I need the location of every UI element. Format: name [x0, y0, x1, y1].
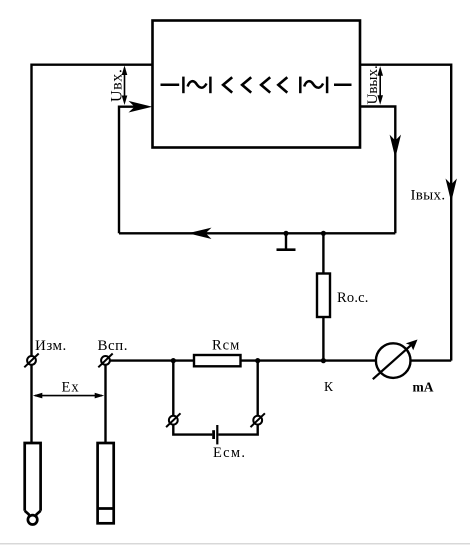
resistor Ro.c.: [317, 274, 330, 318]
auxiliary electrode (Всп): [98, 443, 114, 523]
demodulator symbol (output) inside block: [300, 77, 351, 94]
ground: [277, 233, 296, 249]
svg-text:К: К: [324, 379, 334, 394]
arrowhead into block input: [129, 101, 153, 113]
glass electrode (Изм): [25, 443, 41, 525]
dimension arrow Ex between electrode wires: [33, 393, 104, 399]
amplifier block U1 (modulator-amplifier-demodulator): [153, 21, 361, 148]
svg-text:Eсм.: Eсм.: [213, 445, 246, 461]
svg-text:Rо.с.: Rо.с.: [337, 290, 369, 306]
amplifier stage chevrons inside block: [223, 77, 287, 92]
wire: top input from left column to block: [32, 65, 153, 356]
svg-text:Rсм: Rсм: [212, 338, 240, 354]
junction dot left battery branch: [171, 358, 176, 363]
dimension arrow for Uвых: [377, 66, 383, 104]
wire: feedback rail: [119, 232, 395, 234]
resistor Rсм: [194, 355, 241, 366]
junction dot at ground stem: [283, 231, 288, 236]
modulator symbol (input) inside block: [161, 77, 211, 94]
terminal Всп. (circle with slash): [98, 354, 112, 368]
page separator line: [0, 543, 470, 545]
svg-text:mA: mA: [413, 380, 434, 395]
wire: lower output of block down to feedback rail: [360, 107, 395, 234]
svg-text:Изм.: Изм.: [35, 338, 67, 354]
arrowhead of meter needle: [406, 340, 418, 351]
svg-text:Iвых.: Iвых.: [411, 188, 446, 204]
terminal Изм. (circle with slash): [24, 354, 38, 368]
junction dot at Ro.c. branch: [321, 231, 326, 236]
dimension arrow for Uвх: [122, 66, 128, 106]
terminal (circle with slash) right of Eсм: [251, 413, 265, 427]
battery Eсм plates: [214, 425, 218, 444]
node K junction dot: [321, 358, 326, 363]
wire: resistor Ro.c. to node K: [322, 317, 324, 361]
wire: top output from block to right column: [360, 65, 451, 361]
arrowhead down on lower output wire: [390, 135, 401, 158]
wire: Всп terminal down to auxiliary electrode: [104, 365, 106, 443]
terminal (circle with slash) left of Eсм: [166, 413, 180, 427]
wire: Изм terminal down to glass electrode: [30, 365, 32, 443]
wire: left terminal to battery: [173, 425, 212, 435]
junction dot right battery branch: [255, 358, 260, 363]
wire: lower input with arrow into block: [119, 107, 136, 234]
wire: feedback rail to resistor Ro.c.: [322, 233, 324, 273]
milliammeter mA: [373, 343, 411, 379]
wire: main bottom rail from Всп terminal to Rсм: [110, 359, 194, 361]
wire: meter to right column: [411, 359, 452, 361]
wire: left branch down to battery terminal: [172, 361, 174, 416]
arrowhead left on feedback rail: [188, 228, 212, 239]
wire: right terminal to battery: [219, 425, 258, 435]
wire: main bottom rail from Rсм to meter: [241, 359, 376, 361]
wire: right branch down from rail: [257, 361, 259, 416]
arrowhead down on Iвых wire: [446, 179, 457, 203]
svg-text:Ex: Ex: [62, 380, 80, 396]
svg-text:Всп.: Всп.: [98, 338, 128, 354]
